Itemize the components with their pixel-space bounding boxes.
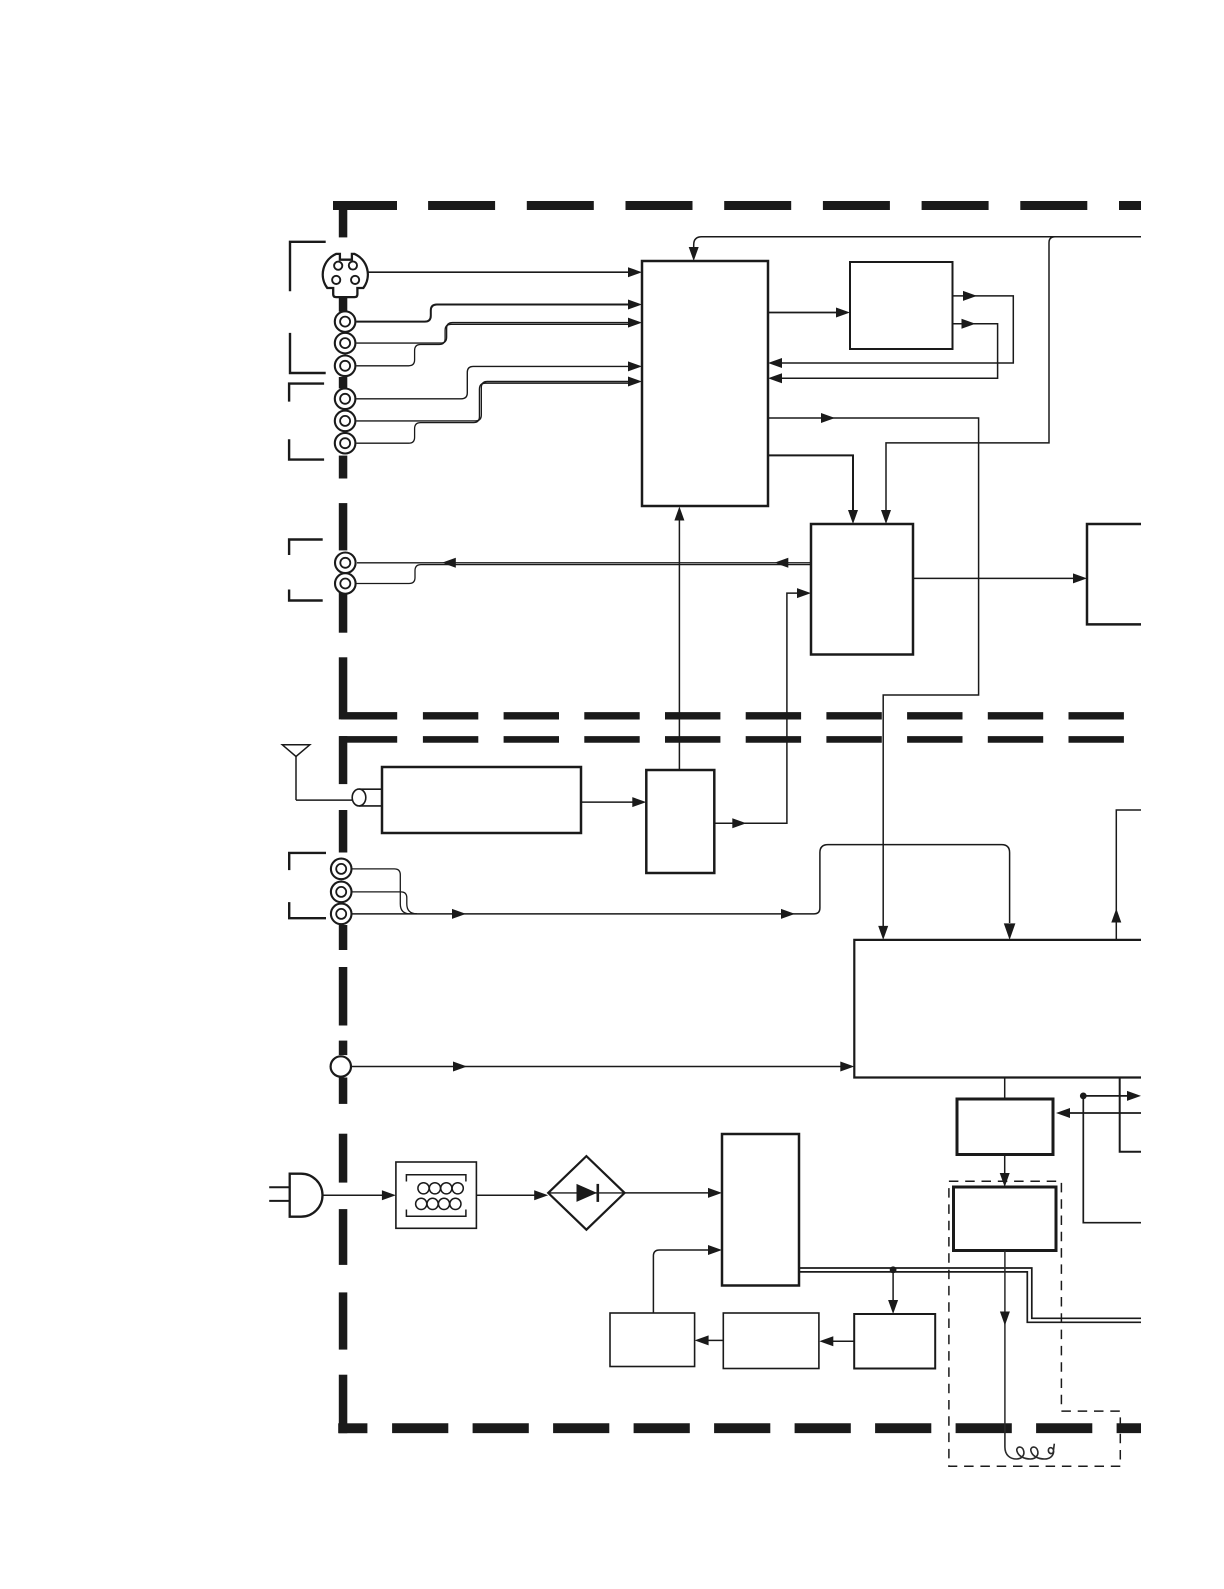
bottom border dashes, section 1	[423, 712, 1141, 719]
block U12	[854, 1314, 935, 1369]
block U9 (in dashed outline)	[954, 1187, 1057, 1251]
wire J12 to U7 left	[351, 1062, 854, 1072]
wire U3 out to J7/J8	[357, 558, 811, 568]
bridge rectifier D1	[548, 1156, 624, 1230]
wire junction down into U12	[888, 1270, 898, 1314]
bracket group A top (S-video/line1 in)	[290, 242, 326, 291]
RCA jack J4	[335, 389, 356, 410]
block U1 (A/V switch, section 1)	[642, 261, 768, 506]
wire U1 right (y455) down to U3	[768, 455, 858, 524]
S-video pin 2	[349, 261, 357, 269]
wire U7 bottom right to edge	[1120, 1078, 1141, 1152]
wire J9 merge into bus	[352, 869, 410, 914]
RCA jack J8	[335, 573, 356, 594]
dashed sub-chassis outline around U9	[949, 1181, 1120, 1466]
RCA jack J2	[335, 333, 356, 354]
bracket group C top (line out)	[289, 540, 323, 556]
S-video pin 3	[332, 276, 340, 284]
S-video connector JK0	[323, 254, 368, 297]
wire U2 upper loop back to U1	[768, 291, 1013, 368]
S-video pin 4	[351, 276, 359, 284]
block U13	[610, 1313, 695, 1367]
RCA jack J11	[331, 904, 352, 925]
wire J8 branch (pairs with J7)	[357, 565, 812, 584]
left border dash segments, section 1	[339, 297, 348, 633]
wire J10 merge into bus	[352, 892, 417, 914]
wire J6 to U1 (pairs with J5)	[356, 383, 634, 443]
bottom border corner, section 1	[339, 657, 397, 719]
bracket group D top (line in, section 2)	[289, 853, 326, 870]
block U7 (wide block, cut off right)	[854, 940, 1141, 1078]
wire U1 right (y418) down to U7	[768, 413, 979, 940]
AC power plug P1	[269, 1174, 322, 1217]
wire U7 bottom to U8	[1004, 1078, 1006, 1099]
wire transformer to bridge	[476, 1190, 548, 1200]
arrow U12 into U11	[819, 1336, 854, 1346]
block U2 (top right)	[850, 262, 953, 349]
tuner block U5	[382, 767, 581, 833]
tuner coax input connector	[352, 789, 383, 806]
bracket group D bottom	[289, 902, 326, 918]
wire U8 down into U9	[1000, 1155, 1010, 1188]
wire J2 to U1	[356, 318, 642, 344]
bracket group C bottom	[289, 590, 323, 601]
wire J4 to U1	[356, 361, 642, 398]
dash stub below S-video	[340, 297, 346, 311]
twin supply rails from U10 right	[799, 1268, 1141, 1322]
block U8	[957, 1099, 1053, 1155]
block U3 (below U2)	[811, 524, 913, 655]
bottom border dashes, section 2	[392, 1423, 1141, 1433]
top border corner, section 2	[339, 736, 397, 784]
block U4 (right edge, cut off)	[1087, 524, 1141, 624]
wire from right edge into U8	[1056, 1108, 1141, 1118]
bracket group B bottom	[289, 439, 324, 459]
bottom border corner, section 2	[338, 1375, 367, 1434]
junction dot right of U8	[1080, 1093, 1087, 1100]
RCA jack J5	[335, 411, 356, 432]
wire U6 up into U3 left	[714, 588, 811, 828]
wire U2 lower loop back to U1	[768, 319, 998, 384]
block U11	[723, 1313, 819, 1369]
wire S-video to U1	[368, 267, 642, 277]
wire bridge to U10	[625, 1188, 722, 1198]
wire J5 to U1	[356, 377, 642, 421]
RCA jack J3	[335, 356, 356, 377]
wire J1 to U1	[356, 300, 642, 322]
bracket group A bottom	[290, 333, 326, 373]
block U6 (IF)	[646, 770, 714, 873]
mini jack J12	[331, 1056, 351, 1076]
wire U1 to U2	[768, 308, 850, 318]
bracket group B top (line2 in)	[289, 384, 324, 402]
wire J11 bus to U7 top	[352, 845, 1015, 940]
wire U3 to U4	[913, 573, 1087, 583]
wire J3 to U1 (pairs with J2)	[356, 324, 634, 366]
wire U6 top up into U1 bottom	[674, 507, 684, 771]
feedback wire into U1 top	[689, 237, 1141, 261]
wire tuner U5 to U6	[581, 797, 646, 807]
RCA jack J10	[331, 882, 352, 903]
junction dot on supply rail	[890, 1266, 897, 1273]
wire plug to transformer	[323, 1190, 396, 1200]
power block U10	[722, 1134, 799, 1286]
RCA jack J7	[335, 553, 356, 574]
wire U13 up into U10 left	[653, 1245, 722, 1313]
arrow U11 into U13	[695, 1335, 724, 1345]
wire from feedback line down to U3	[881, 237, 1055, 524]
top border dashes, section 1	[428, 201, 1141, 210]
RCA jack J6	[335, 433, 356, 454]
wire U7 top up to right edge	[1111, 810, 1141, 940]
RCA jack J1	[335, 311, 356, 332]
wire dot to right edge with arrow	[1083, 1091, 1141, 1101]
wire U9 down to degauss coil	[1000, 1251, 1010, 1433]
left border dash segments, section 2	[339, 810, 348, 1350]
transformer T1	[396, 1162, 477, 1228]
degauss coil L1	[1005, 1430, 1054, 1459]
top border dashes, section 2	[423, 736, 1141, 743]
wire antenna to tuner	[296, 799, 353, 801]
antenna ANT1	[282, 745, 310, 800]
top border corner, section 1	[333, 201, 397, 237]
RCA jack J9	[331, 859, 352, 880]
S-video pin 1	[334, 262, 342, 270]
wire dot down to right edge	[1083, 1096, 1141, 1223]
